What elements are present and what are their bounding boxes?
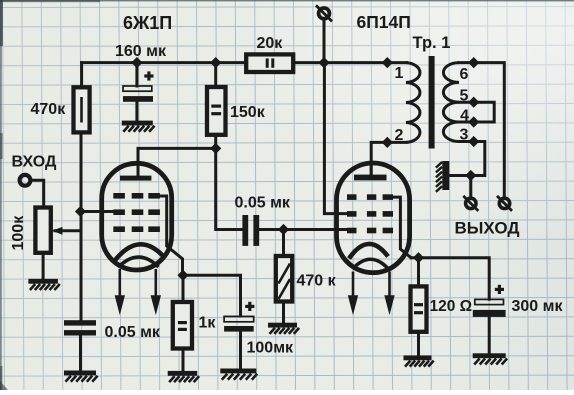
wire: cathode node to R6 120ohm [417,258,420,287]
svg-text:3: 3 [460,127,469,144]
wire: pin 6 lead [459,61,474,64]
wire: V2 anode to transformer pin 2 [371,142,406,176]
junction: pin 5 [468,97,479,108]
wire: C1 to ground [135,102,138,121]
terminal: B+ supply [316,5,332,21]
wire: common node to output terminal 1 [469,176,472,198]
ground (R4) [268,323,299,334]
wire: potentiometer bottom to ground [42,253,45,279]
wire: anode node to C3 coupling cap [216,148,242,229]
wire: V2 grid line [261,228,349,231]
junction: pin 3 [468,136,479,147]
wire: V1 suppressor/cathode bracket [160,196,183,275]
wire: V1 cathode node to C4 100uF [183,275,241,316]
svg-text:6П14П: 6П14П [357,12,411,32]
wire: cathode node to R5 1k [182,275,185,302]
wire: screen feed to V2 [324,63,348,214]
ground (C2) [64,371,98,382]
resistor 150k (V1 anode load) [207,87,226,135]
wire: C2 to ground [79,336,82,371]
tube V1 cathode [114,244,164,261]
svg-text:Тр. 1: Тр. 1 [413,34,451,52]
wire: potentiometer wiper link [55,229,81,232]
svg-text:470 к: 470 к [297,273,337,290]
junction: rail / R2 [210,57,221,68]
capacitor C5 300uF electrolytic [473,285,506,317]
transformer Tr.1 primary winding [406,63,420,143]
wire: rail drop to C1 160uF [135,63,138,86]
junction: pin 2 [382,137,393,148]
svg-text:6Ж1П: 6Ж1П [123,13,172,33]
wire: C4 to ground [239,332,242,369]
wire: V1 grid line [81,210,115,213]
capacitor C4 100uF electrolytic [224,302,254,332]
ground (C1) [122,121,155,132]
wire: pin 3 to common node [450,142,485,176]
wire: B+ supply rail [82,61,388,64]
capacitor C2 0.05uF (grid) [64,320,96,335]
wire: V2 cathode node to C5 300uF [411,258,489,300]
terminal: output 1 [463,196,478,211]
junction: pin 6 [468,57,479,68]
tube V1 heater lead arrows [116,269,159,310]
transformer Tr.1 core [429,56,435,149]
svg-text:100к: 100к [10,215,27,251]
tube V1 6Zh1P envelope [102,163,172,270]
tube V2 heater [353,259,389,269]
ground (C4) [220,369,257,380]
tube V2 cathode [349,244,388,259]
svg-text:470к: 470к [31,101,67,118]
svg-text:300 мк: 300 мк [512,298,564,315]
wire: V1 anode link [138,148,216,176]
wire: V2 suppressor/cathode bracket [393,197,411,258]
junction: rail / B+ / screen feed [318,57,329,68]
svg-text:ВЫХОД: ВЫХОД [455,219,520,238]
ground (R6) [404,355,434,366]
capacitor C3 0.05uF coupling [242,215,259,246]
wire: B+ terminal lead [323,21,326,63]
resistor 1k (V1 cathode) [173,302,192,349]
wire: pin 5 lead [459,101,474,104]
svg-text:ВХОД: ВХОД [12,154,57,171]
junction: secondary common / ground [465,170,476,181]
svg-text:0.05 мк: 0.05 мк [105,324,161,341]
tube V2 anode [354,165,387,181]
wire: rail to R2 150k [214,63,217,88]
tube V2 6P14P envelope [337,163,410,273]
potentiometer 100k [35,208,62,253]
svg-text:150к: 150к [230,104,266,121]
resistor 120 ohm (V2 cathode) [411,286,427,331]
capacitor C1 160uF electrolytic [123,71,154,101]
wire: pin 3 lead [459,140,474,143]
junction: V2 grid node / R4 [278,224,289,235]
wire: jumper pins 5-4 [474,102,495,122]
wire: R4 bottom to ground [282,302,285,323]
ground (C5) [473,353,507,364]
ground (transformer secondary) [436,161,449,192]
wire: R2 bottom to anode node [214,135,217,149]
junction: V1 grid node [75,206,86,217]
terminal: output 2 [497,196,512,211]
svg-text:120 Ω: 120 Ω [430,298,473,315]
wire: pin 6 to output terminal 2 [474,63,505,197]
wire: input terminal to potentiometer [32,180,44,207]
transformer Tr.1 secondary winding [443,63,459,142]
resistor 470k (V1 grid) [74,87,90,132]
wire: pin 1 lead [387,61,406,64]
ground (R5) [168,371,199,382]
svg-text:2: 2 [395,127,404,144]
svg-text:6: 6 [460,66,469,83]
junction: V1 cathode node [177,270,188,281]
svg-text:100мк: 100мк [247,340,295,357]
tube V1 anode [120,165,151,181]
junction: rail / C1 [131,57,142,68]
ground (potentiometer) [28,279,59,290]
wire: R1 bottom to grid node / C2 [80,132,83,321]
terminal: input jack [20,175,31,186]
tube V2 heater lead arrows [350,272,394,311]
wire: pin 4 lead [459,121,474,124]
svg-text:160 мк: 160 мк [115,43,167,60]
wire: C5 to ground [488,317,491,354]
svg-text:4: 4 [460,108,469,125]
tube V1 grids [113,193,160,232]
wire: rail to R1 470k top [80,63,83,88]
junction: anode node / R2 [210,143,221,154]
junction: pin 1 [382,57,393,68]
wire: R6 bottom to ground [417,332,420,356]
svg-text:1к: 1к [199,315,217,332]
resistor 20k (decoupling) [246,54,293,72]
svg-text:20к: 20к [257,35,284,52]
wire: grid node to R4 470k [282,230,285,257]
svg-text:1: 1 [395,65,404,82]
junction: pin 4 [468,116,479,127]
resistor 470 k (V2 grid leak) [276,256,292,302]
wire: R5 bottom to ground [182,349,185,372]
svg-text:5: 5 [460,88,469,105]
tube V1 heater [119,257,159,267]
svg-text:0.05 мк: 0.05 мк [235,195,291,212]
junction: V2 cathode node [413,252,424,263]
tube V2 grids [347,194,393,233]
